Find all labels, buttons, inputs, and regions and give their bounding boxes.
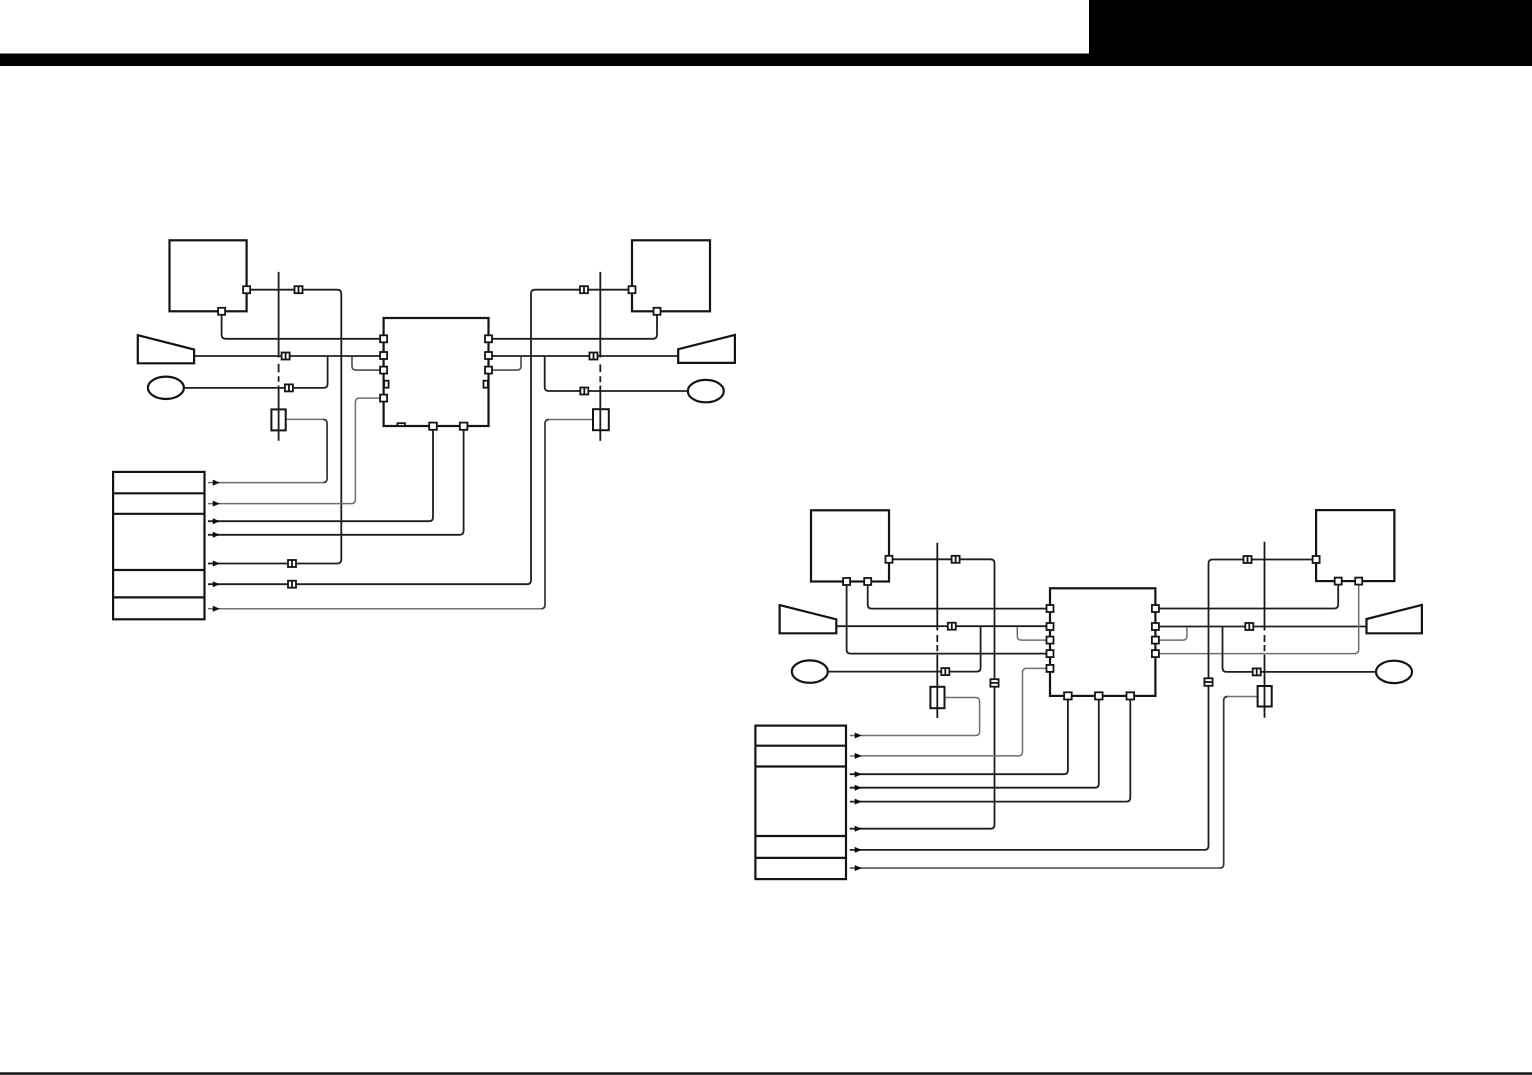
connector pair K4 on V11 [1245, 623, 1253, 630]
unit box B top-right [632, 240, 710, 311]
amplifier box center2 [1050, 588, 1155, 696]
connector pair J6 on W12 [580, 388, 588, 395]
harness2 arrow row3 [855, 771, 862, 777]
fuse F4 grommet right2 [1258, 686, 1272, 707]
harness2 arrow row2 [855, 753, 862, 759]
right speaker SP2 [678, 335, 735, 363]
harness2 arrow row6 [855, 826, 862, 832]
wire V9c amp2 bottom pin B3 to harness2 row5 [850, 700, 1131, 802]
firewall pass-through line right2 [1264, 542, 1266, 718]
wire W7 amp pin L5 to harness row2 [208, 398, 380, 504]
harness arrow row2 [213, 501, 220, 507]
connector pair K8 on V16 vertical [1204, 678, 1212, 686]
amp pin R2 [485, 352, 492, 359]
unit C bottom terminal1 [843, 578, 850, 585]
unit box A top-left [170, 240, 247, 311]
wire V6 fuse F3 to harness2 row1 [850, 698, 980, 736]
amp2 pin L1 [1047, 605, 1054, 612]
unit B left terminal [629, 286, 636, 293]
unit box D top-right2 [1316, 510, 1394, 581]
wire W14 unit B left terminal to harness row6 [208, 290, 629, 585]
right tweeter TW4 [1376, 661, 1412, 683]
amp2 pin L2 [1047, 623, 1054, 630]
amp pin R1 [485, 335, 492, 342]
left tweeter TW1 [148, 377, 184, 399]
unit C right terminal [886, 556, 893, 563]
harness2 arrow row4 [855, 785, 862, 791]
amp2 pin R2 [1152, 623, 1159, 630]
harness arrow row4 [213, 532, 220, 538]
wire W13b riser to harness row7 [541, 420, 549, 609]
fuse F1 grommet left [271, 409, 285, 430]
harness connector block CN1 [113, 472, 204, 619]
wire W5a fuse F1 lead [286, 418, 323, 420]
wire V15a fuse F4 lead [1228, 696, 1258, 698]
fuse F2 grommet right [593, 409, 609, 430]
wire V1 unit C right terminal to harness2 row6 [850, 559, 995, 828]
firewall pass-through line right [599, 272, 601, 441]
amp pin L3 [380, 367, 387, 374]
amp2 pin L4 [1047, 650, 1054, 657]
harness arrow row1 [213, 480, 220, 486]
amp2 pin R3 [1152, 637, 1159, 644]
connector pair K1 on V1 [952, 556, 960, 563]
left speaker SP3 [780, 605, 837, 633]
harness arrow row7 [213, 606, 220, 612]
wire V8 amp2 pin L5 to harness2 row2 [850, 668, 1047, 756]
connector pair K2 on V16 [1244, 556, 1252, 563]
wire V3 unit C bottom terminal2 to amp2 pin L1 [868, 585, 1047, 609]
amp bottom pin B2 [460, 423, 468, 430]
wire V2 unit C bottom terminal1 to amp2 pin L4 [847, 585, 1047, 654]
harness2 arrow row8 [855, 865, 862, 871]
amp pin L1 [380, 335, 387, 342]
wire W3 left speaker SP1 to amp pin L2 [194, 355, 380, 357]
unit box C top-left2 [811, 510, 889, 581]
connector pair J1 on W1 [295, 286, 303, 293]
unit A bottom terminal [218, 308, 225, 315]
amp pin L5 [380, 395, 387, 402]
right tweeter TW2 [688, 380, 724, 402]
unit C bottom terminal2 [864, 578, 871, 585]
harness2 arrow row5 [855, 799, 862, 805]
harness arrow row3 [213, 518, 220, 524]
wire V10 amp2 pin R1 to unit D bottom terminal1 [1159, 585, 1338, 609]
wire V7 amp2 pin L3 branch [1017, 627, 1046, 640]
firewall pass-through line left [278, 272, 280, 441]
wire W6 amp pin L3 branch [352, 357, 380, 370]
amp2 bottom pin B2 [1095, 692, 1103, 699]
amp pin R3 [485, 367, 492, 374]
wire W13c harness row7 lead [208, 608, 542, 610]
connector pair J8 on harness row6 [288, 581, 296, 588]
wire W8b amp bottom pin B2 to harness row4 [208, 430, 464, 535]
wire W2 unit A bottom terminal to amp pin L1 [222, 315, 381, 339]
footer rule [0, 1072, 1532, 1075]
amp2 pin L3 [1047, 637, 1054, 644]
wire V14 right tweeter TW4 junction to V11 [1223, 627, 1377, 672]
wire V12 amp2 pin R3 branch [1159, 627, 1187, 640]
harness2 arrow row7 [855, 847, 862, 853]
wire W4 left tweeter TW1 junction to W3 [184, 357, 328, 388]
connector pair J5 on W4 [285, 384, 293, 391]
wire W9 amp pin R1 to unit B bottom terminal [492, 315, 657, 339]
wire V15b riser to harness2 row8 [1220, 697, 1228, 869]
amp pin R4 stub [484, 381, 488, 388]
unit D bottom terminal2 [1355, 578, 1362, 585]
connector pair K5 on V5 [941, 668, 949, 675]
amp pin L2 [380, 352, 387, 359]
connector pair J7 on harness row5 [288, 560, 296, 567]
wire V4 left speaker SP3 to amp2 pin L2 [836, 625, 1046, 627]
amp2 bottom pin B3 [1127, 692, 1135, 699]
unit D bottom terminal1 [1335, 578, 1342, 585]
connector pair K7 on V1 vertical [990, 679, 998, 687]
amp bottom pin B1 [429, 423, 437, 430]
amplifier box center [384, 318, 489, 426]
wire V15c harness2 row8 lead [850, 867, 1220, 869]
harness connector block CN2 [755, 726, 846, 880]
wire W13a fuse F2 lead [549, 419, 593, 421]
left tweeter TW3 [792, 660, 828, 682]
unit A right terminal [243, 286, 250, 293]
amp pin L4 stub [384, 381, 388, 388]
harness arrow row6 [213, 581, 220, 587]
firewall pass-through line left2 [936, 543, 938, 718]
connector pair J4 on W10 [590, 353, 598, 360]
header black title panel [1089, 0, 1532, 66]
wire V9a amp2 bottom pin B1 to harness2 row3 [850, 700, 1068, 775]
wire W1 unit A right terminal to harness row5 [208, 290, 341, 564]
wire V16 unit D left terminal to harness2 row7 [850, 560, 1313, 850]
connector pair J3 on W3 [282, 353, 290, 360]
amp2 pin L5 [1047, 665, 1054, 672]
harness arrow row5 [213, 561, 220, 567]
wire W8a amp bottom pin B1 to harness row3 [208, 430, 433, 521]
wire V9b amp2 bottom pin B2 to harness2 row4 [850, 700, 1099, 788]
amp2 bottom pin B1 [1064, 692, 1072, 699]
wire V11 amp2 pin R2 to right speaker SP4 [1159, 626, 1367, 628]
harness2 arrow row1 [855, 733, 862, 739]
unit D left terminal [1313, 556, 1320, 563]
wire W5c harness row1 lead [208, 482, 324, 484]
right speaker SP4 [1367, 605, 1422, 633]
unit B bottom terminal [654, 308, 661, 315]
wire W11 amp pin R3 branch [492, 357, 521, 370]
wire V13 amp2 pin R4 to unit D bottom terminal2 [1159, 585, 1359, 654]
wire W10 amp pin R2 to right speaker SP2 [492, 355, 678, 357]
wire W12 right tweeter TW2 junction to W10 [545, 357, 688, 391]
wire W5b riser to harness row1 [323, 419, 327, 482]
amp2 pin R4 [1152, 650, 1159, 657]
wire V5 left tweeter TW3 junction to V4 [828, 627, 981, 672]
fuse F3 grommet left2 [930, 687, 944, 708]
amp2 pin R1 [1152, 605, 1159, 612]
connector pair J2 on W14 [580, 286, 588, 293]
header rule bar [0, 54, 1532, 67]
amp bottom stub pin [397, 423, 405, 426]
connector pair K6 on V14 [1253, 668, 1261, 675]
connector pair K3 on V4 [948, 623, 956, 630]
left speaker SP1 [138, 335, 194, 363]
